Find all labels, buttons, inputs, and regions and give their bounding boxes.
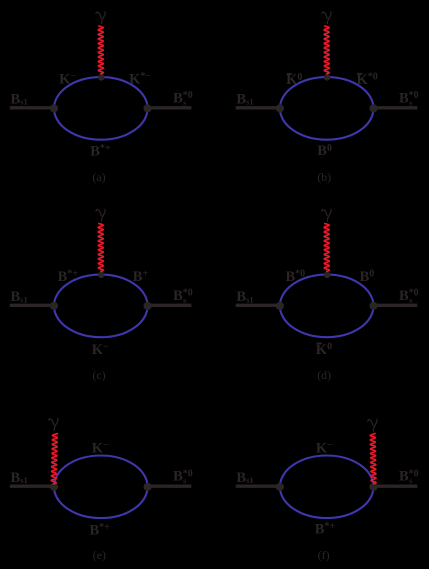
svg-text:K*−: K*−: [129, 71, 151, 87]
svg-text:Bs1: Bs1: [236, 289, 253, 305]
svg-text:Bs1: Bs1: [11, 470, 28, 486]
svg-text:(c): (c): [92, 368, 105, 382]
svg-text:(b): (b): [317, 170, 331, 184]
svg-text:K−: K−: [92, 341, 109, 357]
svg-text:B*0s: B*0s: [399, 288, 419, 305]
svg-text:B*0s: B*0s: [399, 90, 419, 107]
svg-text:Bs1: Bs1: [236, 470, 253, 486]
svg-text:B*+: B*+: [315, 521, 336, 537]
svg-text:(f): (f): [318, 548, 330, 562]
svg-text:Bs1: Bs1: [11, 91, 28, 107]
svg-text:K−: K−: [316, 440, 333, 456]
svg-text:(e): (e): [93, 548, 106, 562]
svg-text:B*0s: B*0s: [399, 468, 419, 485]
svg-text:K−: K−: [92, 440, 109, 456]
svg-text:(d): (d): [317, 368, 331, 382]
svg-text:K−: K−: [59, 71, 76, 87]
svg-text:B+: B+: [133, 269, 149, 285]
svg-text:B*0s: B*0s: [173, 468, 193, 485]
svg-text:B*0s: B*0s: [173, 288, 193, 305]
svg-text:B0: B0: [360, 269, 375, 285]
svg-text:(a): (a): [92, 170, 105, 184]
svg-text:B*+: B*+: [90, 522, 111, 538]
svg-text:B*+: B*+: [90, 143, 111, 159]
svg-text:B0: B0: [317, 143, 332, 159]
svg-text:Bs1: Bs1: [11, 289, 28, 305]
svg-text:B*0s: B*0s: [173, 90, 193, 107]
svg-text:Bs1: Bs1: [236, 91, 253, 107]
